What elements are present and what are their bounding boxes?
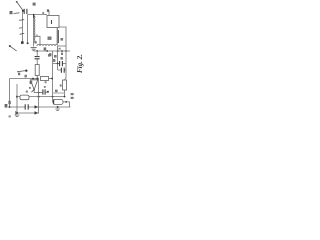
node O [57, 106, 59, 108]
label 9 speck [8, 101, 10, 104]
ground at node O [55, 109, 59, 111]
node A antenna junction [22, 10, 24, 12]
label 42 speck [35, 41, 37, 43]
antenna lead-in [17, 2, 24, 11]
vertical x38.5 [38, 79, 40, 114]
tick on left branch [19, 19, 24, 22]
node Q [46, 50, 48, 52]
transistor Q1 triangle [30, 80, 37, 90]
left wire down [9, 79, 11, 108]
R6 right wire [63, 102, 70, 107]
bus rail y51 [34, 50, 70, 52]
resistor R2 horizontal [41, 77, 49, 81]
base wire y78.5 [10, 78, 39, 80]
speck 3 [53, 60, 55, 62]
node G [36, 78, 38, 80]
label 60 speck [30, 81, 33, 84]
arrowhead rail2 [35, 111, 39, 114]
label 30 [10, 11, 13, 14]
emitter speck [29, 87, 31, 89]
resistor R1 vertical [35, 65, 39, 76]
label 31 [5, 104, 8, 108]
resistor R3 vertical [63, 80, 67, 90]
capacitor C3 plates [60, 61, 63, 66]
label 52 [48, 37, 52, 40]
inductor L2 horizontal winding [37, 45, 66, 47]
vertical rail x57.5 low [57, 51, 59, 70]
label 34 leader [10, 46, 17, 51]
wire vertical from C1 down [27, 15, 29, 43]
label 62 speck [25, 75, 27, 78]
node L [38, 96, 40, 98]
ground under L1 [31, 48, 37, 51]
node I dot [47, 91, 49, 93]
label 66 speck [59, 48, 61, 50]
inductor L1 vertical winding [33, 15, 35, 47]
node J [51, 78, 53, 80]
capacitor C7 plates [25, 104, 28, 109]
capacitor C4 plates [61, 68, 64, 73]
node E [57, 50, 59, 52]
right rail lower [65, 70, 67, 80]
ground below left [15, 115, 20, 117]
wire R1 to node [36, 76, 38, 79]
wire box top faint [53, 92, 65, 94]
emitter wire y92.5 [34, 92, 43, 94]
rail y96.5 [17, 96, 65, 98]
arrowhead rail1 [35, 105, 39, 108]
capacitor C3 wire [53, 63, 66, 65]
label 48 speck [47, 9, 49, 11]
bottom left speck [9, 115, 11, 117]
cross mark speck [61, 53, 63, 55]
label 46 speck [42, 12, 44, 14]
node C bottom of branch [27, 42, 29, 44]
label 76 speck 2 [71, 97, 74, 99]
Q1 apex dot [33, 89, 35, 91]
capacitor C6 right stub [45, 91, 47, 93]
label 56 [61, 38, 64, 41]
node base dot [32, 78, 34, 80]
resistor R6 pill [53, 99, 63, 104]
tap wire from L1 [34, 36, 40, 45]
box U1 [47, 16, 59, 28]
R6 left plate dark [53, 99, 55, 104]
tick 3 on left branch [19, 27, 22, 30]
speck below R2 [45, 81, 47, 83]
wire U1 right down rail [59, 27, 66, 70]
node R [61, 50, 63, 52]
node M [52, 96, 54, 98]
label 64 speck [44, 47, 47, 50]
Q1 emitter arrow [31, 90, 33, 92]
speck 4 [61, 57, 63, 60]
tick 2 on left branch [20, 32, 25, 35]
speck left of R3 [60, 84, 62, 86]
wire vertical x57.5 [57, 28, 58, 44]
label 74 speck [55, 90, 58, 93]
node K [16, 96, 18, 98]
svg-text:Fig. 2.: Fig. 2. [76, 54, 84, 73]
wire R2 to rail [49, 78, 53, 80]
vertical rail x52.5 [52, 51, 54, 97]
label arrow 58 [17, 71, 26, 72]
node H [38, 92, 40, 94]
tick on tap [36, 34, 38, 36]
capacitor C7 gap [26, 104, 28, 110]
speck above C6 [44, 86, 46, 88]
label 76 specks [71, 93, 74, 95]
label 34 dot [9, 45, 11, 47]
stub rail to C5 [36, 51, 38, 57]
arrow dot 58 [25, 70, 27, 72]
vertical x17 [16, 84, 18, 113]
node P [16, 112, 18, 114]
rail y106.5 [10, 106, 71, 108]
inductor L1 loops [34, 16, 35, 42]
label 68 speck [49, 53, 51, 56]
U1 top stub [48, 11, 50, 16]
node B coil top junction [33, 14, 35, 16]
node F [65, 50, 67, 52]
label 59 speck [18, 73, 20, 76]
label 70 speck [53, 59, 56, 62]
antenna top dot [16, 1, 18, 3]
specks row labels 64-72 [48, 54, 50, 57]
capacitor C4 wire [58, 69, 66, 71]
wire top horizontal to box [27, 14, 47, 16]
wire C5 to R1 [36, 59, 38, 65]
wire x57.5 lower [57, 46, 59, 51]
speck 2 [54, 55, 57, 58]
L1 top dark segment [33, 14, 35, 17]
resistor R4 pill [20, 95, 29, 100]
left end tick [15, 111, 17, 115]
capacitor C6 plates [43, 89, 45, 94]
capacitor C1 plate right [26, 9, 28, 14]
capacitor C5 above R1 [35, 57, 40, 59]
capacitor C2 bottom plate blob [21, 41, 24, 44]
Q1 apex lead [33, 90, 35, 93]
node D [36, 50, 38, 52]
U1 inner element [51, 20, 53, 24]
R6 left stub [52, 97, 54, 102]
node rail left dot [9, 106, 11, 108]
label 38 speck [33, 3, 36, 6]
node T [65, 101, 67, 103]
node N [64, 96, 66, 98]
wire vertical left tuning branch [21, 12, 23, 43]
wire below R3 [64, 90, 66, 97]
label 72 speck [26, 91, 28, 93]
label 30 leader arrow [14, 12, 20, 15]
node S [57, 63, 59, 65]
rail y112.5 [16, 112, 39, 114]
capacitor C1 plate left [23, 9, 25, 14]
